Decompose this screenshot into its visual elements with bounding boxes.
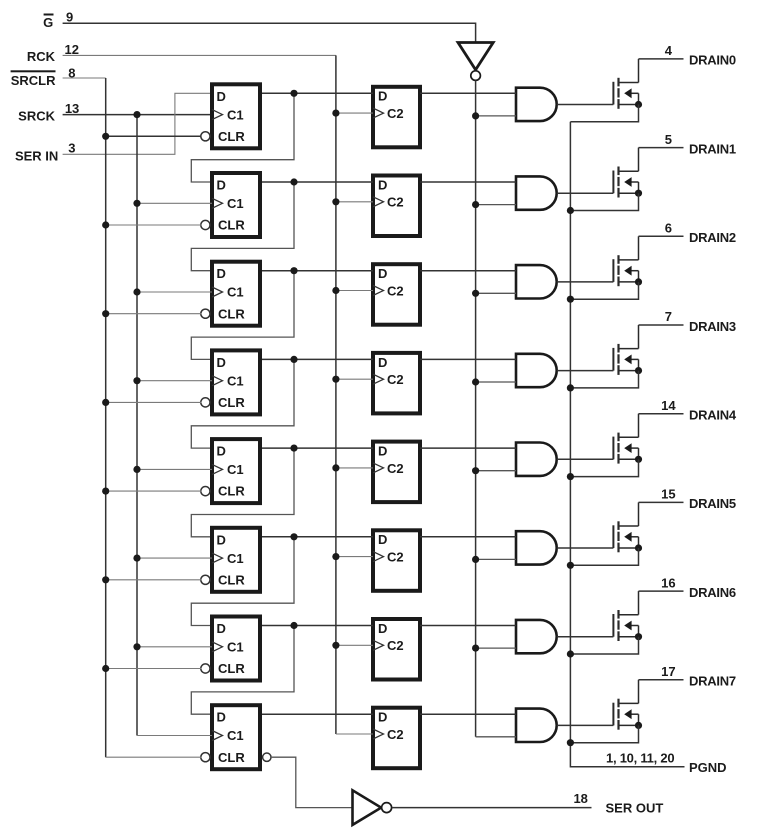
inverter U9 (G enable) [458, 43, 493, 81]
svg-text:15: 15 [661, 487, 675, 502]
power MOSFET Q6 [613, 502, 642, 552]
wire Q6 to latch D [262, 536, 373, 538]
D flip-flop FF1 [201, 84, 260, 148]
wire source to PGND rail row 8 [570, 725, 638, 742]
svg-text:DRAIN6: DRAIN6 [689, 585, 736, 600]
wire Q5 to latch D [262, 447, 373, 449]
wire drain pin row 7 [639, 590, 684, 592]
AND gate A8 [516, 709, 557, 742]
power MOSFET Q3 [613, 236, 642, 286]
latch U4 [373, 353, 420, 414]
wire SRCK to C1 row 8 [137, 735, 212, 737]
wire drain pin row 6 [639, 501, 684, 503]
wire G to AND row 4 [476, 381, 516, 383]
wire SER IN to FF1 D [63, 93, 212, 154]
wire RCK to C2 row 4 [336, 378, 373, 380]
svg-text:DRAIN1: DRAIN1 [689, 141, 736, 156]
junction RCK rail row 2 [332, 198, 339, 205]
junction PGND rail row 8 [567, 739, 574, 746]
svg-text:PGND: PGND [689, 760, 727, 775]
power MOSFET Q4 [613, 325, 642, 375]
svg-text:SRCK: SRCK [18, 108, 55, 123]
wire SRCLR to CLR row 8 [106, 756, 202, 758]
svg-text:DRAIN2: DRAIN2 [689, 230, 736, 245]
wire SRCLR to CLR row 7 [106, 668, 202, 670]
junction SRCK rail row 2 [133, 200, 140, 207]
power MOSFET Q1 [613, 59, 642, 109]
buffer U10 (SER OUT) [353, 790, 392, 825]
wire Q3 to latch D [262, 270, 373, 272]
wire latch Q to AND row 5 [420, 447, 516, 449]
D flip-flop FF8 [201, 705, 260, 769]
wire AND out to gate row 3 [557, 281, 614, 283]
wire source to PGND rail row 2 [570, 193, 638, 210]
net SRCLR-bar input label [11, 70, 57, 88]
junction Q4 branch [290, 356, 297, 363]
svg-text:DRAIN4: DRAIN4 [689, 408, 737, 423]
svg-text:7: 7 [665, 309, 672, 324]
wire Q1 to latch D [262, 92, 373, 94]
junction Q7 branch [290, 622, 297, 629]
junction Q2 branch [290, 178, 297, 185]
wire RCK rail [335, 55, 337, 734]
svg-text:5: 5 [665, 132, 672, 147]
wire G to AND row 2 [476, 204, 516, 206]
wire SRCK to C1 row 5 [137, 468, 212, 470]
wire drain pin row 8 [639, 679, 684, 681]
wire AND out to gate row 1 [557, 104, 614, 106]
net G-bar input label [43, 14, 53, 31]
junction RCK rail row 5 [332, 464, 339, 471]
wire Q5 to FF6 D (jog) [191, 448, 294, 537]
wire RCK to C2 row 6 [336, 556, 373, 558]
wire source to PGND rail row 5 [570, 459, 638, 476]
wire G to AND row 6 [476, 558, 516, 560]
wire AND out to gate row 2 [557, 192, 614, 194]
wire SRCLR to CLR row 2 [106, 224, 202, 226]
svg-text:12: 12 [65, 42, 79, 57]
svg-text:SER IN: SER IN [15, 148, 58, 163]
junction SRCLR rail row 3 [102, 310, 109, 317]
latch U6 [373, 530, 420, 591]
wire G to AND row 3 [476, 292, 516, 294]
svg-text:SRCLR: SRCLR [11, 73, 56, 88]
wire SRCK to C1 row 2 [137, 202, 212, 204]
wire Q6 to FF7 D (jog) [191, 537, 294, 626]
junction Q3 branch [290, 267, 297, 274]
wire source to PGND rail row 3 [570, 282, 638, 299]
wire AND out to gate row 8 [557, 724, 614, 726]
wire source to PGND rail row 1 [570, 105, 638, 122]
svg-text:6: 6 [665, 221, 672, 236]
wire Q4 to FF5 D (jog) [191, 359, 294, 448]
power MOSFET Q7 [613, 591, 642, 641]
junction RCK rail row 4 [332, 376, 339, 383]
wire drain pin row 3 [639, 235, 684, 237]
svg-text:DRAIN3: DRAIN3 [689, 319, 736, 334]
junction SRCK rail row 5 [133, 466, 140, 473]
junction SRCLR rail row 7 [102, 665, 109, 672]
wire drain pin row 1 [639, 58, 684, 60]
wire Q2 to latch D [262, 181, 373, 183]
D flip-flop FF6 [201, 528, 260, 592]
bubble FF8 SER OUT tap [263, 753, 271, 761]
junction PGND rail row 3 [567, 296, 574, 303]
junction SRCK rail row 4 [133, 377, 140, 384]
svg-text:18: 18 [573, 791, 587, 806]
wire SRCLR rail [105, 78, 107, 757]
wire latch Q to AND row 8 [420, 713, 516, 715]
junction G rail row 2 [472, 201, 479, 208]
wire SRCK to C1 row 3 [137, 291, 212, 293]
wire RCK to C2 row 7 [336, 644, 373, 646]
junction SRCLR rail row 5 [102, 488, 109, 495]
svg-text:G: G [43, 15, 53, 30]
wire RCK to rail [63, 54, 336, 56]
junction PGND rail row 2 [567, 207, 574, 214]
wire SRCLR to CLR row 3 [106, 313, 202, 315]
junction PGND rail row 7 [567, 650, 574, 657]
wire SRCK to C1 row 6 [137, 557, 212, 559]
latch U2 [373, 176, 420, 237]
wire AND out to gate row 5 [557, 458, 614, 460]
wire AND out to gate row 6 [557, 547, 614, 549]
svg-text:1, 10, 11, 20: 1, 10, 11, 20 [606, 751, 674, 766]
wire Q4 to latch D [262, 358, 373, 360]
D flip-flop FF7 [201, 617, 260, 681]
wire PGND rail [570, 122, 684, 767]
latch U3 [373, 264, 420, 325]
wire source to PGND rail row 7 [570, 637, 638, 654]
AND gate A3 [516, 265, 557, 298]
wire SRCK rail [136, 115, 138, 736]
junction Q6 branch [290, 533, 297, 540]
power MOSFET Q2 [613, 148, 642, 198]
svg-text:SER OUT: SER OUT [606, 800, 664, 815]
AND gate A1 [516, 88, 557, 121]
junction PGND rail row 6 [567, 562, 574, 569]
junction SRCK rail row 7 [133, 643, 140, 650]
wire latch Q to AND row 1 [420, 92, 516, 94]
AND gate A4 [516, 354, 557, 387]
wire G-bar to inverter [63, 23, 476, 42]
svg-text:RCK: RCK [27, 49, 56, 64]
wire Q1 to FF2 D (jog) [191, 93, 294, 182]
wire drain pin row 5 [639, 413, 684, 415]
D flip-flop FF4 [201, 350, 260, 414]
wire G rail [475, 80, 477, 736]
wire G to AND row 5 [476, 470, 516, 472]
junction G rail row 7 [472, 645, 479, 652]
wire RCK to C2 row 2 [336, 201, 373, 203]
junction SRCLR rail row 2 [102, 221, 109, 228]
AND gate A7 [516, 620, 557, 653]
wire RCK to C2 row 8 [336, 733, 373, 735]
junction SRCLR rail row 1 [102, 133, 109, 140]
junction RCK rail row 3 [332, 287, 339, 294]
wire AND out to gate row 7 [557, 636, 614, 638]
junction G rail row 1 [472, 112, 479, 119]
wire source to PGND rail row 4 [570, 371, 638, 388]
wire latch Q to AND row 6 [420, 536, 516, 538]
AND gate A2 [516, 176, 557, 209]
junction SRCLR rail row 4 [102, 399, 109, 406]
D flip-flop FF2 [201, 173, 260, 237]
svg-text:14: 14 [661, 398, 676, 413]
wire latch Q to AND row 3 [420, 270, 516, 272]
wire SRCK to C1 row 7 [137, 646, 212, 648]
svg-text:DRAIN0: DRAIN0 [689, 53, 736, 68]
junction SRCK rail row 1 [133, 111, 140, 118]
latch U8 [373, 708, 420, 769]
junction PGND rail row 4 [567, 384, 574, 391]
svg-text:4: 4 [665, 43, 673, 58]
junction RCK rail row 1 [332, 110, 339, 117]
svg-text:16: 16 [661, 575, 675, 590]
wire SRCK to C1 row 4 [137, 380, 212, 382]
power MOSFET Q8 [613, 680, 642, 730]
latch U1 [373, 87, 420, 148]
svg-text:DRAIN7: DRAIN7 [689, 674, 736, 689]
wire SRCLR to rail [63, 77, 106, 79]
wire SER OUT tap [271, 757, 352, 807]
svg-text:DRAIN5: DRAIN5 [689, 496, 736, 511]
wire source to PGND rail row 6 [570, 548, 638, 565]
wire SRCLR to CLR row 5 [106, 490, 202, 492]
svg-text:3: 3 [68, 141, 75, 156]
wire G to AND row 7 [476, 647, 516, 649]
wire drain pin row 2 [639, 147, 684, 149]
wire latch Q to AND row 7 [420, 625, 516, 627]
junction Q1 branch [290, 90, 297, 97]
wire Q2 to FF3 D (jog) [191, 182, 294, 271]
wire Q7 to FF8 D (jog) [191, 626, 294, 715]
wire Q3 to FF4 D (jog) [191, 271, 294, 360]
AND gate A5 [516, 443, 557, 476]
junction G rail row 3 [472, 290, 479, 297]
wire AND out to gate row 4 [557, 370, 614, 372]
D flip-flop FF5 [201, 439, 260, 503]
junction SRCK rail row 3 [133, 288, 140, 295]
svg-text:17: 17 [661, 664, 675, 679]
wire latch Q to AND row 2 [420, 181, 516, 183]
latch U7 [373, 619, 420, 680]
junction RCK rail row 7 [332, 642, 339, 649]
junction Q5 branch [290, 445, 297, 452]
D flip-flop FF3 [201, 262, 260, 326]
junction SRCLR rail row 6 [102, 576, 109, 583]
wire RCK to C2 row 5 [336, 467, 373, 469]
junction G rail row 6 [472, 556, 479, 563]
power MOSFET Q5 [613, 414, 642, 464]
wire SRCK input [63, 114, 212, 116]
wire RCK to C2 row 3 [336, 290, 373, 292]
junction G rail row 5 [472, 467, 479, 474]
junction SRCK rail row 6 [133, 555, 140, 562]
latch U5 [373, 442, 420, 503]
wire G to AND row 8 [476, 736, 516, 738]
junction PGND rail row 5 [567, 473, 574, 480]
wire SRCLR to CLR row 1 [106, 135, 202, 137]
wire Q8 to latch D [262, 713, 373, 715]
wire G to AND row 1 [476, 115, 516, 117]
wire RCK to C2 row 1 [336, 112, 373, 114]
wire SER OUT [392, 807, 592, 809]
AND gate A6 [516, 531, 557, 564]
wire SRCLR to CLR row 6 [106, 579, 202, 581]
wire Q7 to latch D [262, 625, 373, 627]
junction RCK rail row 6 [332, 553, 339, 560]
wire latch Q to AND row 4 [420, 358, 516, 360]
wire SRCLR to CLR row 4 [106, 401, 202, 403]
junction G rail row 4 [472, 378, 479, 385]
wire drain pin row 4 [639, 324, 684, 326]
